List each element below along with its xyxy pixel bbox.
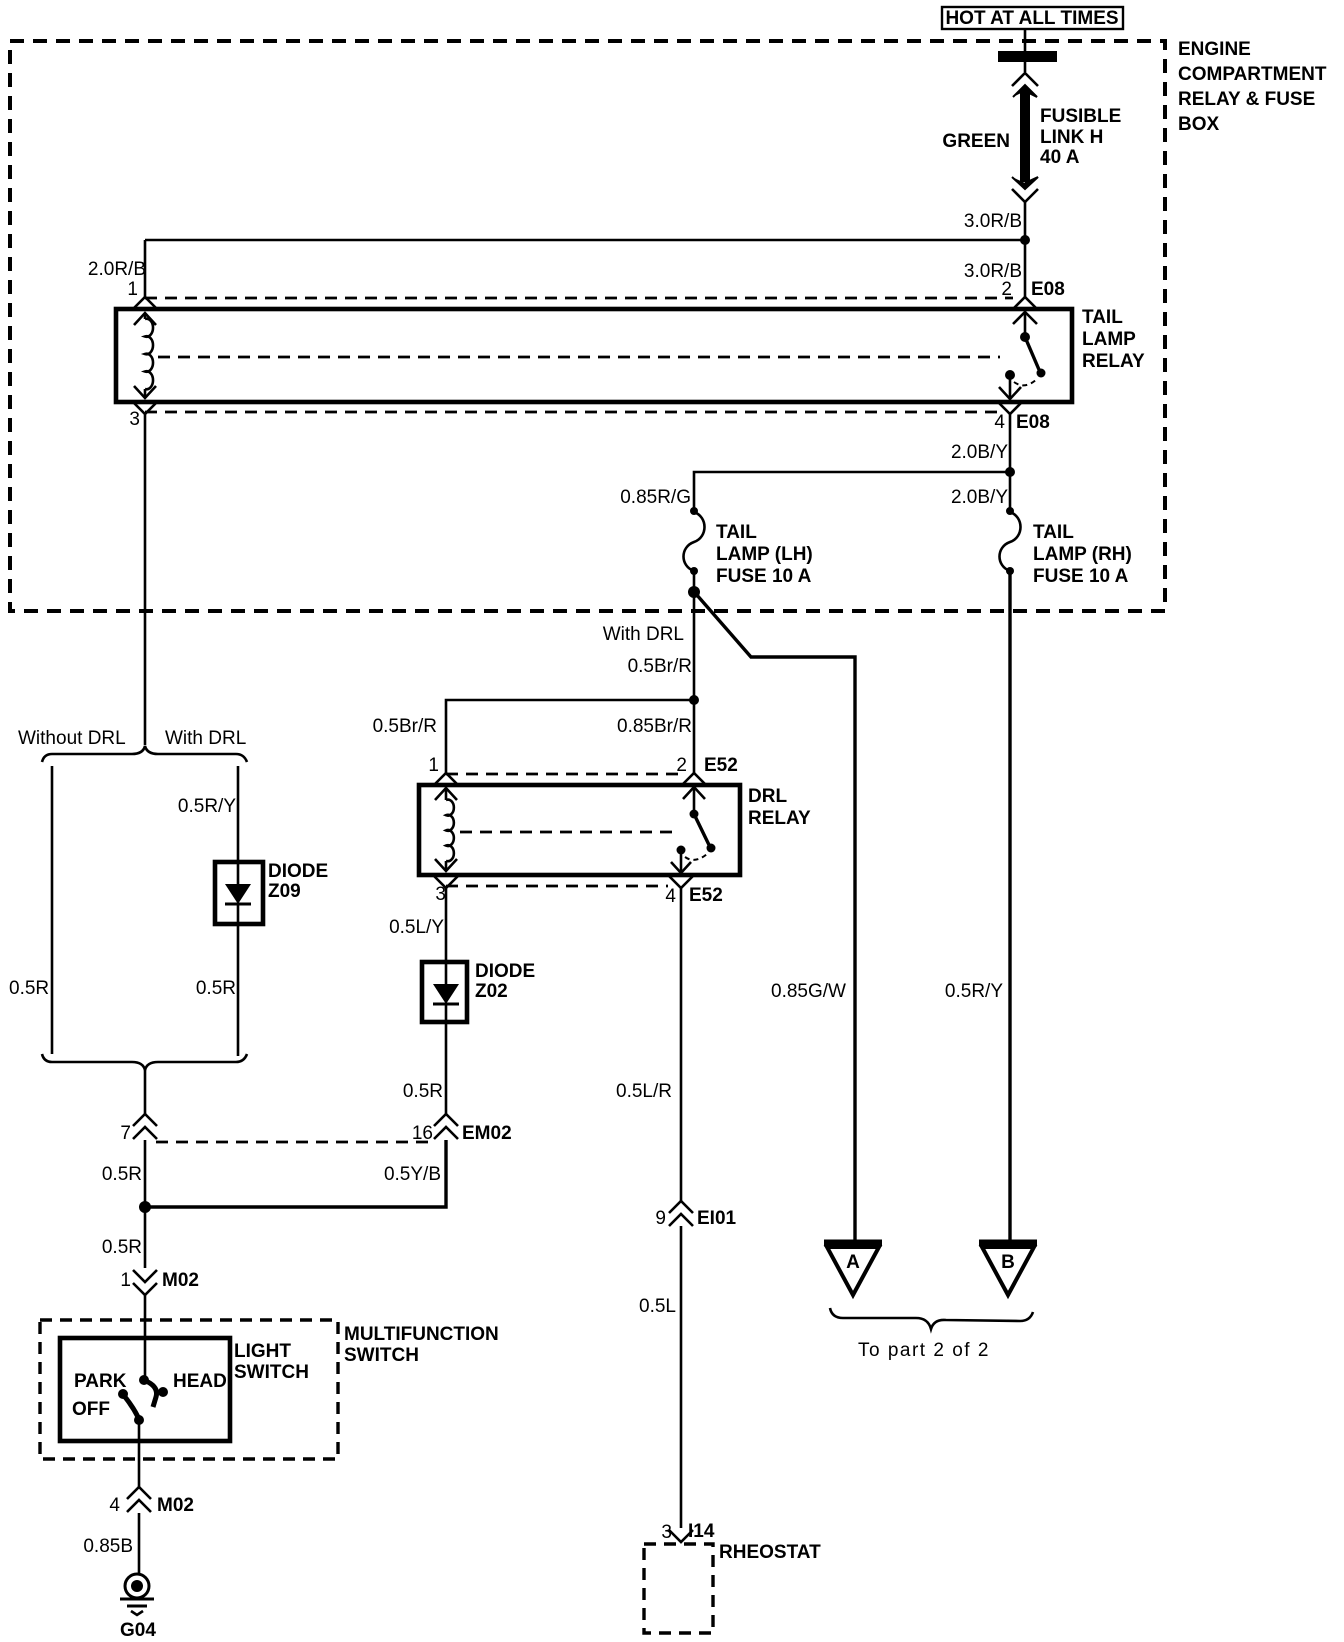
pin 4 chevron E08 [998,402,1022,414]
pin 1 chevron E52 [434,773,458,785]
label TAIL LAMP (LH) FUSE 10 A [716,522,813,587]
rheostat dashed box [644,1544,713,1633]
fuse tail lamp RH 10A [1000,507,1021,575]
svg-text:1: 1 [428,755,439,776]
tail lamp relay switch [999,312,1046,399]
wire E08 pin3 down to Without/With DRL split [144,414,147,745]
connector E08 upper dashed face [145,297,1013,300]
svg-text:2.0B/Y: 2.0B/Y [951,442,1008,463]
svg-text:DIODE: DIODE [268,861,328,882]
fuse tail lamp LH 10A [684,507,705,575]
svg-text:Z09: Z09 [268,881,301,902]
svg-text:I14: I14 [688,1521,715,1542]
connector M02 chevron pin4 [127,1487,151,1512]
wire M02 pin1 into light switch [144,1295,147,1380]
svg-text:0.5R: 0.5R [9,978,49,999]
label DRL RELAY [748,786,811,829]
svg-text:0.5Y/B: 0.5Y/B [384,1164,441,1185]
wire junction to E52 pin1 [446,700,694,773]
fusible link top chevrons [1012,73,1038,97]
svg-text:SWITCH: SWITCH [234,1362,309,1383]
fusible link H terminal bar [998,51,1057,62]
svg-text:LINK H: LINK H [1040,127,1103,148]
svg-text:0.5L/Y: 0.5L/Y [389,917,444,938]
connector chevron pin7 [133,1114,157,1139]
svg-text:E08: E08 [1016,412,1050,433]
svg-text:FUSE 10 A: FUSE 10 A [1033,566,1129,587]
wire Without DRL branch [51,766,54,1054]
pin 3 chevron E08 [133,402,157,414]
pin 3 chevron E52 [434,876,458,888]
svg-text:0.85B: 0.85B [83,1536,133,1557]
wire With DRL branch lower [237,924,240,1056]
svg-text:4: 4 [994,412,1005,433]
diode Z09 [215,862,263,924]
label MULTIFUNCTION SWITCH [344,1324,499,1366]
label LIGHT SWITCH [234,1341,309,1383]
wire junction to LH fuse branch [694,472,1010,509]
svg-text:M02: M02 [157,1495,194,1516]
svg-text:To part 2 of 2: To part 2 of 2 [858,1340,990,1361]
svg-text:RHEOSTAT: RHEOSTAT [719,1542,821,1563]
svg-text:3.0R/B: 3.0R/B [964,261,1022,282]
svg-text:3.0R/B: 3.0R/B [964,211,1022,232]
wire EI01 down to I14 (0.5L) [680,1226,683,1528]
DRL relay box [419,785,740,875]
wire LH fuse to branch node [693,571,696,592]
svg-text:SWITCH: SWITCH [344,1345,419,1366]
svg-text:E52: E52 [704,755,738,776]
pin 1 chevron E08 [133,297,157,309]
wire junction down to E52 pin2 [693,700,696,773]
pin 2 chevron E08 [1013,297,1037,309]
svg-text:2: 2 [676,755,687,776]
label TAIL LAMP (RH) FUSE 10 A [1033,522,1132,587]
svg-text:MULTIFUNCTION: MULTIFUNCTION [344,1324,499,1345]
svg-text:DIODE: DIODE [475,961,535,982]
svg-text:With DRL: With DRL [165,728,246,749]
tail lamp relay coil [134,313,156,398]
label DIODE Z09 [268,861,328,902]
connector M02 chevron pin1 [133,1270,157,1295]
wire branch to A feed (0.85G/W) [696,594,855,1240]
svg-text:4: 4 [665,886,676,907]
multifunction switch dashed box [40,1320,338,1459]
svg-text:0.85R/G: 0.85R/G [620,487,691,508]
off-page connector B [979,1243,1037,1295]
svg-text:OFF: OFF [72,1399,110,1420]
svg-text:0.5R: 0.5R [102,1164,142,1185]
svg-text:E52: E52 [689,885,723,906]
wire bar to connector chevron [1024,62,1027,72]
label TAIL LAMP RELAY [1082,307,1145,372]
svg-text:TAIL: TAIL [1033,522,1074,543]
svg-text:HEAD: HEAD [173,1371,227,1392]
wire junction down to RH fuse [1009,472,1012,510]
svg-text:EM02: EM02 [462,1123,512,1144]
svg-text:FUSIBLE: FUSIBLE [1040,106,1121,127]
svg-text:7: 7 [120,1123,131,1144]
svg-text:0.5R/Y: 0.5R/Y [945,981,1003,1002]
wire junction down to E08 pin2 [1024,240,1027,297]
brace split Without/With DRL (top) [42,746,247,762]
svg-text:EI01: EI01 [697,1208,737,1229]
svg-text:0.85Br/R: 0.85Br/R [617,716,692,737]
label ENGINE COMPARTMENT RELAY & FUSE BOX [1178,39,1327,135]
wire E08 pin4 down to 2.0B/Y junction [1009,414,1012,472]
wire pin7 down to junction [144,1140,147,1207]
connector EM02 dashed face [156,1141,432,1144]
svg-text:PARK: PARK [74,1371,127,1392]
connector E52 upper dashed face [446,773,686,776]
svg-text:9: 9 [655,1208,666,1229]
svg-text:LIGHT: LIGHT [234,1341,291,1362]
svg-text:2.0R/B: 2.0R/B [88,259,146,280]
off-page connector A [824,1243,882,1295]
wire diode Z02 to EM02 pin16 [445,1022,448,1115]
wire E52 pin4 down to EI01 (0.5L/R) [680,888,683,1201]
wire LH fuse down to DRL junction [693,592,696,700]
svg-text:0.5R: 0.5R [102,1237,142,1258]
svg-text:HOT AT ALL TIMES: HOT AT ALL TIMES [945,8,1118,29]
svg-text:ENGINE: ENGINE [1178,39,1251,60]
wire junction down to M02 pin1 [144,1207,147,1268]
svg-text:3: 3 [129,409,140,430]
wire merge down to M02 pin7 [144,1070,147,1114]
wire E52 pin3 to diode Z02 [445,888,448,962]
svg-text:0.5R: 0.5R [403,1081,443,1102]
tail lamp relay box [116,309,1072,402]
svg-text:FUSE 10 A: FUSE 10 A [716,566,812,587]
wire horizontal feed to relay coil [145,239,1025,242]
svg-text:RELAY & FUSE: RELAY & FUSE [1178,89,1315,110]
svg-text:Z02: Z02 [475,981,508,1002]
DRL relay internal dashed link [460,831,676,834]
wire With DRL branch upper [237,766,240,862]
pin 4 chevron E52 [669,876,693,888]
diode Z02 [422,962,467,1022]
svg-text:RELAY: RELAY [748,808,811,829]
wire M02 pin4 to ground (0.85B) [138,1513,141,1573]
fusible link H 40A body [1020,90,1030,182]
svg-text:RELAY: RELAY [1082,351,1145,372]
svg-text:0.5Br/R: 0.5Br/R [373,716,437,737]
wire light switch common down to M02 pin4 [138,1420,141,1487]
brace merge (bottom) [42,1054,247,1070]
svg-text:0.5R/Y: 0.5R/Y [178,796,236,817]
brace to part 2 [830,1308,1033,1329]
svg-text:LAMP: LAMP [1082,329,1136,350]
svg-text:1: 1 [120,1270,131,1291]
node HOT AT ALL TIMES [942,7,1123,29]
svg-text:LAMP (RH): LAMP (RH) [1033,544,1132,565]
svg-text:0.5L: 0.5L [639,1296,676,1317]
svg-text:A: A [846,1252,860,1273]
ground G04 [120,1574,154,1615]
svg-text:G04: G04 [120,1620,156,1641]
DRL relay coil [435,788,457,871]
light switch contacts [118,1375,168,1425]
node junction 0.5R [139,1201,151,1213]
svg-text:COMPARTMENT: COMPARTMENT [1178,64,1327,85]
svg-text:BOX: BOX [1178,114,1220,135]
svg-text:TAIL: TAIL [716,522,757,543]
DRL relay switch [671,787,716,873]
wire RH fuse down to B (0.5R/Y) [1008,571,1011,1240]
label DIODE Z02 [475,961,535,1002]
svg-text:E08: E08 [1031,279,1065,300]
wire EM02 pin16 down-left (0.5Y/B) [144,1140,446,1207]
svg-text:Without DRL: Without DRL [18,728,126,749]
wire left drop to E08 pin1 [144,240,147,297]
svg-text:With DRL: With DRL [603,624,684,645]
svg-text:1: 1 [127,279,138,300]
tail lamp relay internal dashed link [158,356,1000,359]
connector E52 lower dashed face [446,885,668,888]
node LH fuse output junction [688,586,700,598]
connector I14 chevron [669,1530,693,1542]
connector EI01 chevron pin9 [669,1201,693,1226]
wire from HOT feed down to fusible link [1024,29,1027,52]
svg-text:2.0B/Y: 2.0B/Y [951,487,1008,508]
svg-text:B: B [1001,1252,1015,1273]
pin 2 chevron E52 [682,773,706,785]
node junction 2.0B/Y [1005,467,1015,477]
light switch box [60,1338,230,1441]
svg-text:0.5L/R: 0.5L/R [616,1081,672,1102]
fusible link bottom chevrons [1012,177,1038,202]
label FUSIBLE LINK H 40 A [1040,106,1121,168]
connector EM02 chevron pin16 [434,1114,458,1139]
svg-text:40 A: 40 A [1040,147,1080,168]
svg-text:0.5R: 0.5R [196,978,236,999]
wire fusible link to junction [1024,202,1027,240]
svg-text:GREEN: GREEN [942,131,1010,152]
node junction 0.85Br/R [689,695,699,705]
connector E08 lower dashed face [145,411,1000,414]
svg-text:M02: M02 [162,1270,199,1291]
node junction 3.0R/B [1020,235,1030,245]
engine compartment relay & fuse box (dashed) [10,41,1165,611]
svg-text:0.5Br/R: 0.5Br/R [628,656,692,677]
svg-text:TAIL: TAIL [1082,307,1123,328]
svg-text:LAMP (LH): LAMP (LH) [716,544,813,565]
svg-text:4: 4 [109,1495,120,1516]
svg-text:0.85G/W: 0.85G/W [771,981,846,1002]
svg-text:DRL: DRL [748,786,787,807]
